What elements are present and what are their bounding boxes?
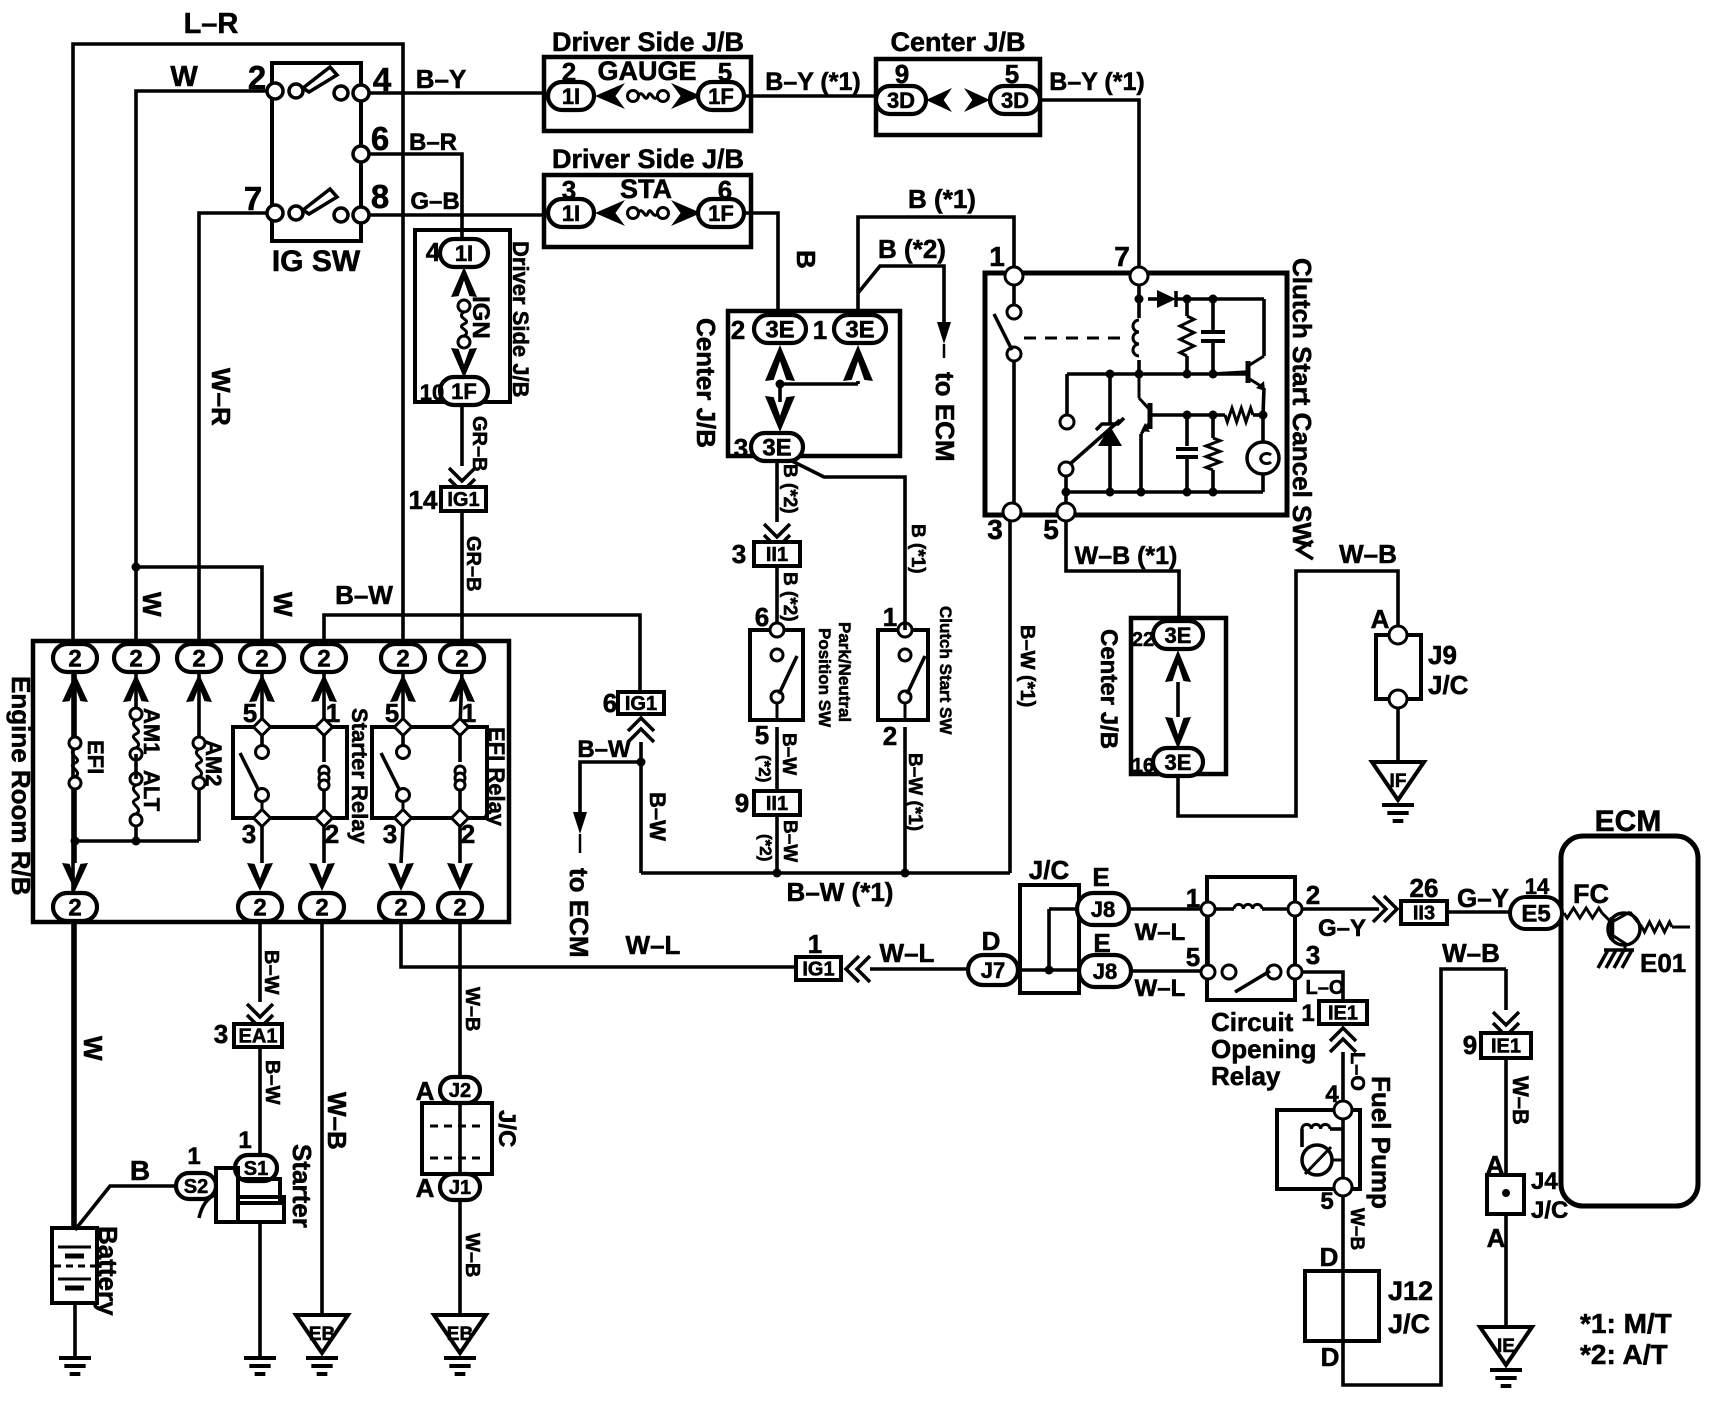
svg-text:B: B <box>130 1155 150 1186</box>
svg-text:E: E <box>1092 862 1109 892</box>
wire W-B loop from 3E 16 up to J9 <box>1178 539 1398 816</box>
svg-text:L–O: L–O <box>1346 1052 1368 1091</box>
resistor R3 inside clutch cancel SW <box>1225 408 1268 422</box>
wire W-L J8 to relay pin 1 <box>1129 909 1201 946</box>
svg-text:7: 7 <box>1114 241 1130 272</box>
svg-text:1F: 1F <box>708 84 734 109</box>
svg-text:2: 2 <box>129 646 142 673</box>
fuse AM1 and fusible link ALT <box>130 672 164 841</box>
svg-text:E01: E01 <box>1640 948 1686 978</box>
connector 3E pin 22 <box>1132 621 1203 651</box>
svg-text:G–Y: G–Y <box>1457 883 1509 913</box>
wire W-B from EFI relay to J2 <box>460 921 483 1077</box>
svg-text:9: 9 <box>1463 1030 1477 1060</box>
svg-text:FC: FC <box>1573 879 1609 909</box>
svg-text:G–B: G–B <box>410 188 459 215</box>
svg-text:5: 5 <box>1320 1188 1333 1215</box>
svg-text:5: 5 <box>243 698 257 728</box>
wire B from STA fuse to Center J/B 3E <box>744 213 821 315</box>
relay coil inside clutch cancel SW <box>1133 285 1144 379</box>
wire G-B from IG SW pin 8 <box>368 188 544 215</box>
svg-text:J8: J8 <box>1093 959 1117 984</box>
connector 1I pin 2 (GAUGE) <box>548 57 594 110</box>
svg-text:1: 1 <box>808 929 822 959</box>
svg-text:Park/Neutral: Park/Neutral <box>835 622 854 722</box>
capacitor C1 inside clutch cancel SW <box>1201 299 1225 379</box>
svg-text:3: 3 <box>242 819 256 849</box>
arrows and internal wires of 3E block <box>765 345 873 432</box>
wire W-B to ground EB <box>322 921 352 1315</box>
svg-text:Circuit: Circuit <box>1211 1007 1294 1037</box>
connector S2 <box>176 1143 216 1199</box>
svg-text:E5: E5 <box>1521 901 1550 928</box>
indicator lamp inside clutch cancel SW <box>1247 415 1279 492</box>
svg-text:2: 2 <box>1306 880 1320 910</box>
svg-text:(*2): (*2) <box>755 755 774 782</box>
wire B-Y (*1) to clutch start cancel SW pin 7 <box>1040 68 1145 267</box>
svg-text:W–B: W–B <box>1442 938 1500 968</box>
wire W from IG SW pin 2 <box>132 61 269 645</box>
wire B battery to starter S2 <box>75 1155 176 1230</box>
svg-text:1: 1 <box>326 698 340 728</box>
connector 1F pin 5 (GAUGE) <box>698 57 744 110</box>
wire B-Y (*1) GAUGE to Center J/B <box>744 68 876 96</box>
svg-text:Clutch Start Cancel SW: Clutch Start Cancel SW <box>1287 258 1317 547</box>
svg-text:B–W: B–W <box>577 736 631 763</box>
svg-text:B–W: B–W <box>778 733 799 775</box>
wire B (*1) from 3E to clutch start SW and clutch cancel SW pin 1 <box>858 184 1014 315</box>
svg-text:Center J/B: Center J/B <box>890 27 1025 57</box>
wire B-W from R/B to EA1 <box>260 921 282 1002</box>
note *1 M/T *2 A/T <box>1580 1308 1672 1370</box>
svg-text:1F: 1F <box>708 201 734 226</box>
svg-text:Battery: Battery <box>93 1226 123 1316</box>
arrows inside right Center J/B <box>1165 650 1191 749</box>
internal switch of clutch cancel SW <box>994 285 1021 503</box>
svg-text:B–W: B–W <box>261 1060 283 1105</box>
svg-text:*2: A/T: *2: A/T <box>1580 1339 1668 1370</box>
wire B-W from EA1 to starter <box>260 1047 283 1155</box>
ground of starter <box>244 1222 276 1374</box>
fuse GAUGE <box>595 56 701 109</box>
svg-text:B–W: B–W <box>779 820 800 862</box>
svg-text:2: 2 <box>731 315 745 345</box>
ground EB (J/C side) <box>434 1315 486 1374</box>
svg-text:EFI Relay: EFI Relay <box>484 727 509 827</box>
svg-text:B (*2): B (*2) <box>779 572 800 622</box>
svg-text:2: 2 <box>192 646 205 673</box>
svg-text:3E: 3E <box>845 317 874 344</box>
junction block Center J/B (3D) <box>876 27 1040 135</box>
svg-text:IGN: IGN <box>467 296 494 339</box>
svg-text:3: 3 <box>214 1019 228 1049</box>
junction block Center J/B (3E) <box>691 311 900 456</box>
svg-text:2: 2 <box>68 646 81 673</box>
svg-text:Center J/B: Center J/B <box>1095 629 1122 749</box>
svg-text:5: 5 <box>385 698 399 728</box>
internal rail lower <box>1062 488 1264 497</box>
wire B-W from EFI relay to IG1 connector <box>324 580 640 692</box>
fuse AM2 <box>193 672 226 841</box>
svg-text:2: 2 <box>883 721 897 751</box>
svg-text:B–W (*1): B–W (*1) <box>787 877 894 907</box>
wire W-B from J1 to ground EB <box>460 1200 483 1315</box>
motor Fuel Pump <box>1277 1076 1396 1215</box>
svg-text:A: A <box>416 1173 435 1203</box>
wire branch to starter relay pin 5 <box>136 567 298 645</box>
wire B-W (*1) riser to clutch cancel SW pin 3 <box>1010 521 1038 873</box>
connector 3E pin 3 <box>734 433 803 463</box>
svg-text:W: W <box>170 61 198 93</box>
pin 7 of clutch cancel SW <box>1114 241 1148 285</box>
svg-text:D: D <box>1321 1342 1340 1372</box>
mechanical link (dashed) <box>1024 337 1126 340</box>
svg-text:3D: 3D <box>1001 88 1029 113</box>
junction connector J4 J/C <box>1486 1150 1569 1253</box>
wire W-B (*1) from clutch cancel pin 5 to Center J/B 3E 22 <box>1066 521 1179 621</box>
svg-text:B–W: B–W <box>645 792 670 841</box>
ground EB (starter side) <box>296 1315 348 1374</box>
transistor Q1 inside clutch cancel SW <box>1213 299 1265 415</box>
svg-text:II3: II3 <box>1413 903 1435 925</box>
wire W-B IE1 to J4 <box>1506 1058 1533 1175</box>
svg-text:Center J/B: Center J/B <box>691 318 721 448</box>
svg-text:Driver Side J/B: Driver Side J/B <box>552 27 744 57</box>
svg-text:8: 8 <box>371 178 389 215</box>
svg-text:L–R: L–R <box>184 8 239 40</box>
svg-text:26: 26 <box>1410 873 1439 903</box>
svg-text:J/C: J/C <box>1388 1309 1430 1339</box>
svg-text:6: 6 <box>371 120 389 157</box>
second internal switch of clutch cancel SW <box>1059 374 1120 503</box>
connector S1 <box>235 1127 277 1181</box>
connector 9 II1 <box>735 788 800 818</box>
connector 3E pin 1 <box>813 315 886 345</box>
svg-text:IG1: IG1 <box>625 693 657 715</box>
svg-text:EB: EB <box>447 1324 473 1345</box>
svg-text:IG1: IG1 <box>802 959 834 981</box>
bottom connectors 2 of Engine Room R/B <box>53 893 482 922</box>
connector A J1 <box>416 1173 480 1203</box>
ground IE <box>1480 1327 1532 1365</box>
svg-text:A: A <box>1487 1223 1506 1253</box>
connector 3D pin 5 <box>990 59 1040 114</box>
wire B (*2) from 3E pin 3 down <box>777 461 800 522</box>
svg-text:GR–B: GR–B <box>468 416 490 472</box>
svg-text:B–Y: B–Y <box>416 64 467 94</box>
svg-text:W–B: W–B <box>461 1233 483 1277</box>
svg-text:Fuel Pump: Fuel Pump <box>1366 1076 1396 1209</box>
svg-text:3: 3 <box>987 514 1003 545</box>
svg-text:W–L: W–L <box>1135 975 1186 1002</box>
wire branch to ECM (arrow) <box>564 736 641 958</box>
ground of battery <box>59 1303 91 1374</box>
svg-text:2: 2 <box>461 819 475 849</box>
connector 3 II1 <box>732 524 800 569</box>
svg-text:B–R: B–R <box>409 129 457 156</box>
relay box Engine Room R/B <box>6 641 509 922</box>
svg-text:B–W: B–W <box>260 950 282 995</box>
wire GR-B from IG1 to EFI relay pin 1 <box>462 511 484 645</box>
svg-text:3D: 3D <box>887 88 915 113</box>
wire to ground IE <box>1504 1214 1508 1327</box>
svg-text:EA1: EA1 <box>239 1026 278 1048</box>
wire B-W (*2) from II1 to B-W rail <box>756 815 800 878</box>
svg-text:1: 1 <box>989 241 1005 272</box>
wire B-W (*2) from PNP SW pin 5 <box>755 727 799 791</box>
svg-text:Driver Side J/B: Driver Side J/B <box>508 241 533 398</box>
svg-text:1: 1 <box>813 315 827 345</box>
svg-text:G–Y: G–Y <box>1318 915 1366 942</box>
svg-text:W–B (*1): W–B (*1) <box>1075 542 1178 570</box>
svg-text:W: W <box>137 592 167 617</box>
svg-text:1: 1 <box>238 1127 251 1154</box>
connector E J8 (upper) <box>1077 862 1129 925</box>
svg-text:IE1: IE1 <box>1328 1003 1358 1025</box>
top connectors 2 of Engine Room R/B <box>53 644 484 673</box>
internal rail upper <box>1067 370 1248 379</box>
svg-text:*1: M/T: *1: M/T <box>1580 1308 1672 1339</box>
svg-text:5: 5 <box>1043 514 1059 545</box>
svg-text:(*2): (*2) <box>756 834 775 861</box>
arrows above bottom connectors <box>62 863 473 891</box>
fuse IGN <box>451 267 494 378</box>
svg-text:S2: S2 <box>184 1176 208 1198</box>
svg-text:EFI: EFI <box>83 740 108 774</box>
transistor Q2 inside clutch cancel SW <box>1137 374 1226 497</box>
relay Starter Relay <box>233 672 372 863</box>
fuse EFI <box>69 672 108 863</box>
svg-text:GR–B: GR–B <box>462 536 484 592</box>
connector 6 IG1 <box>603 688 664 742</box>
connector 3 EA1 <box>214 1004 282 1049</box>
svg-text:4: 4 <box>426 237 441 267</box>
svg-text:Starter: Starter <box>287 1144 317 1228</box>
switch IG SW <box>244 59 392 278</box>
svg-text:16: 16 <box>1132 755 1154 777</box>
svg-text:B (*2): B (*2) <box>779 464 800 514</box>
junction block Driver Side J/B (STA) <box>544 144 751 247</box>
wire GR-B from 1F to IG1 connector <box>462 405 490 472</box>
resistor R1 inside clutch cancel SW <box>1180 299 1194 379</box>
svg-text:II1: II1 <box>766 793 788 815</box>
connector 1F pin 6 (STA) <box>698 175 744 227</box>
svg-text:9: 9 <box>735 788 749 818</box>
connector 9 IE1 <box>1463 969 1531 1060</box>
wire B-W (*1) from clutch start SW pin 2 <box>901 727 926 878</box>
switch Clutch Start SW <box>878 602 955 751</box>
wire B (*2) branch to ECM <box>858 234 960 462</box>
svg-text:J/C: J/C <box>1428 670 1469 700</box>
wire B (*1) from 3E pin 3 to clutch start SW pin 1 <box>790 460 928 630</box>
ground E01 <box>1598 948 1686 978</box>
svg-text:1F: 1F <box>451 379 477 404</box>
svg-text:STA: STA <box>620 174 672 204</box>
svg-text:2: 2 <box>255 646 268 673</box>
svg-text:1: 1 <box>1301 1000 1314 1027</box>
svg-text:B–W: B–W <box>335 580 393 610</box>
svg-text:3E: 3E <box>765 317 794 344</box>
svg-text:2: 2 <box>325 819 339 849</box>
svg-text:3: 3 <box>734 433 748 463</box>
zener diode inside clutch cancel SW <box>1096 374 1124 497</box>
svg-text:1I: 1I <box>455 241 473 266</box>
svg-text:J7: J7 <box>981 958 1005 983</box>
wire W-L from IG1 to J7 <box>870 938 968 969</box>
svg-text:to ECM: to ECM <box>564 868 594 958</box>
svg-text:W: W <box>78 1036 108 1061</box>
wire G-Y II3 to ECM E5 <box>1447 883 1511 913</box>
connector 1I pin 3 (STA) <box>548 175 594 227</box>
arrows between 3D connectors <box>926 88 990 112</box>
connector 3E pin 2 <box>731 315 806 345</box>
wire W-B fuel pump to J12 <box>1343 1196 1367 1271</box>
wire G-Y relay to II3 <box>1302 909 1379 942</box>
relay EFI Relay <box>372 672 509 863</box>
fuse STA <box>595 174 701 226</box>
pin 1 of clutch cancel SW <box>989 241 1023 285</box>
pin 3 of clutch cancel SW <box>987 503 1021 545</box>
svg-text:B–Y (*1): B–Y (*1) <box>765 68 860 96</box>
wire B-R from IG SW pin 6 <box>368 129 462 239</box>
svg-text:W–L: W–L <box>626 930 681 960</box>
wire W-R from IG SW pin 7 <box>199 213 268 645</box>
svg-text:W–R: W–R <box>206 368 236 426</box>
switch Park/Neutral Position SW <box>750 602 854 750</box>
svg-text:1I: 1I <box>562 201 580 226</box>
bus wire to bottom connector <box>71 837 200 846</box>
svg-text:1: 1 <box>883 602 897 632</box>
connector A J2 <box>416 1076 480 1106</box>
svg-text:Opening: Opening <box>1211 1034 1316 1064</box>
svg-text:Position SW: Position SW <box>815 628 834 728</box>
svg-text:B: B <box>791 250 821 269</box>
svg-text:W: W <box>268 592 298 617</box>
svg-text:D: D <box>982 926 1001 956</box>
svg-text:II1: II1 <box>766 544 788 566</box>
wire B-Y from IG SW pin 4 <box>368 64 544 94</box>
connector E J8 (lower) <box>1079 928 1131 987</box>
wire W-B from J12 up to IE1 branch <box>1343 938 1506 1385</box>
svg-text:B–W (*1): B–W (*1) <box>1016 625 1038 707</box>
capacitor C2 inside clutch cancel SW <box>1176 415 1198 497</box>
connector D J7 <box>968 926 1018 985</box>
svg-text:Starter Relay: Starter Relay <box>347 708 372 845</box>
svg-text:ALT: ALT <box>139 770 164 812</box>
svg-text:J4: J4 <box>1531 1168 1558 1195</box>
connector 1 IG1 <box>796 929 870 982</box>
svg-text:2: 2 <box>315 895 328 922</box>
svg-text:B (*1): B (*1) <box>907 524 928 574</box>
svg-text:L–O: L–O <box>1306 977 1345 999</box>
svg-text:IE: IE <box>1497 1336 1515 1357</box>
svg-text:6: 6 <box>755 602 769 632</box>
relay Circuit Opening Relay <box>1186 877 1320 1000</box>
junction connector J/C (J7/J8) <box>1019 855 1080 993</box>
svg-text:3E: 3E <box>1165 623 1192 648</box>
svg-text:Relay: Relay <box>1211 1061 1281 1091</box>
wire L-O relay pin 3 to IE1 <box>1302 972 1344 1001</box>
wire L-R from battery feed to EFI relay pin 5 <box>73 8 403 1228</box>
svg-text:B (*2): B (*2) <box>878 234 946 264</box>
svg-text:5: 5 <box>755 720 769 750</box>
junction block Driver Side J/B (GAUGE) <box>544 27 751 131</box>
junction block Driver Side J/B (IGN) <box>415 230 533 402</box>
wire B-W below IG1 with branch to ECM <box>637 742 671 873</box>
connector 14 E5 (FC) <box>1510 874 1609 929</box>
svg-text:Clutch Start SW: Clutch Start SW <box>936 606 955 735</box>
svg-text:IE1: IE1 <box>1491 1036 1521 1058</box>
svg-text:Driver Side J/B: Driver Side J/B <box>552 144 744 174</box>
svg-text:S1: S1 <box>244 1158 268 1180</box>
wire L-O IE1 to fuel pump <box>1343 1052 1368 1101</box>
svg-text:1: 1 <box>187 1143 200 1170</box>
starter motor <box>199 1144 317 1228</box>
svg-text:J1: J1 <box>449 1177 471 1199</box>
svg-text:5: 5 <box>1186 942 1200 972</box>
svg-text:B–Y (*1): B–Y (*1) <box>1049 68 1144 96</box>
svg-text:2: 2 <box>68 895 81 922</box>
svg-text:W–B: W–B <box>1339 539 1397 569</box>
svg-text:IF: IF <box>1390 771 1407 792</box>
svg-text:J9: J9 <box>1428 640 1457 670</box>
svg-text:3E: 3E <box>762 435 791 462</box>
svg-text:2: 2 <box>317 646 330 673</box>
svg-text:2: 2 <box>453 895 466 922</box>
svg-text:2: 2 <box>455 646 468 673</box>
svg-text:3: 3 <box>1306 940 1320 970</box>
svg-text:J2: J2 <box>449 1080 471 1102</box>
svg-text:B–W (*1): B–W (*1) <box>904 753 925 831</box>
battery <box>52 1226 123 1316</box>
svg-text:IG SW: IG SW <box>272 245 361 278</box>
svg-text:W–B: W–B <box>322 1092 352 1150</box>
svg-text:J8: J8 <box>1091 897 1115 922</box>
diode D1 inside clutch cancel SW <box>1148 290 1264 308</box>
connector 3D pin 9 <box>876 59 926 114</box>
svg-text:1: 1 <box>462 698 476 728</box>
wire W-L J8 to relay pin 5 <box>1131 971 1201 1002</box>
svg-text:10: 10 <box>420 380 444 405</box>
svg-text:AM2: AM2 <box>201 740 226 786</box>
junction connector J9 J/C <box>1371 604 1469 708</box>
svg-text:14: 14 <box>409 485 438 515</box>
ground IF <box>1372 708 1424 821</box>
FC driver circuit inside ECM <box>1564 908 1690 952</box>
pin 5 of clutch cancel SW <box>1043 503 1075 545</box>
svg-text:AM1: AM1 <box>139 708 164 754</box>
wire W battery feed <box>75 921 108 1228</box>
label Circuit Opening Relay <box>1211 1007 1316 1091</box>
junction connector J/C (J2/J1) <box>422 1103 520 1174</box>
svg-text:W–B: W–B <box>1346 1208 1367 1250</box>
svg-text:2: 2 <box>394 895 407 922</box>
connector 14 IG1 <box>409 468 486 515</box>
arrows below top connectors <box>62 674 475 702</box>
connector 26 II3 <box>1373 873 1447 925</box>
svg-text:3E: 3E <box>1165 750 1192 775</box>
svg-text:2: 2 <box>253 895 266 922</box>
svg-text:2: 2 <box>396 646 409 673</box>
wire B-W (*1) rail <box>641 873 1010 907</box>
svg-text:B (*1): B (*1) <box>908 184 976 214</box>
resistor R2 inside clutch cancel SW <box>1206 415 1220 497</box>
junction connector J12 J/C <box>1305 1242 1433 1372</box>
svg-text:3: 3 <box>732 539 746 569</box>
svg-text:to ECM: to ECM <box>930 372 960 462</box>
svg-text:W–B: W–B <box>461 987 483 1031</box>
svg-text:J12: J12 <box>1388 1276 1433 1306</box>
